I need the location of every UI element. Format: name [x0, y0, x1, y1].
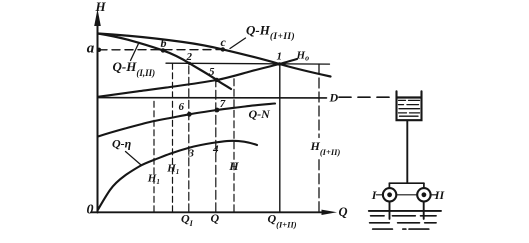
- svg-text:7: 7: [220, 98, 226, 110]
- curve Q-N: [98, 104, 275, 137]
- Q axis: [91, 210, 337, 215]
- svg-text:H1: H1: [166, 163, 179, 177]
- svg-text:QI: QI: [181, 212, 194, 229]
- point 2: [188, 62, 191, 65]
- suction pipe I: [389, 202, 391, 219]
- vertical line H1 first: [153, 99, 155, 212]
- point 1: [278, 62, 282, 66]
- svg-text:Q: Q: [339, 205, 348, 219]
- svg-text:3: 3: [188, 148, 195, 160]
- tank water hatching: [399, 100, 420, 116]
- vertical line QI: [188, 64, 190, 212]
- svg-text:Q(I+II): Q(I+II): [268, 212, 297, 230]
- point b: [161, 48, 165, 52]
- line through pump centers: [376, 194, 437, 196]
- suction pipe II: [423, 202, 425, 219]
- curve Q-eta: [98, 141, 258, 211]
- svg-text:Q-H(I,II): Q-H(I,II): [113, 59, 156, 78]
- svg-text:2: 2: [186, 51, 193, 63]
- svg-text:Ho: Ho: [296, 50, 310, 63]
- D line dashed to tank: [339, 96, 394, 98]
- svg-text:Q: Q: [211, 211, 220, 225]
- point 5: [215, 78, 219, 82]
- vertical line Q (through 5): [215, 80, 217, 212]
- svg-text:5: 5: [209, 66, 215, 78]
- point 7: [215, 108, 220, 113]
- lower water surface line: [369, 210, 441, 212]
- svg-text:II: II: [434, 188, 446, 202]
- svg-text:b: b: [161, 36, 167, 50]
- point 6: [187, 112, 192, 117]
- svg-text:D: D: [329, 91, 339, 105]
- label Q-H(I,II) with leader: [131, 43, 140, 61]
- curve Q-H(I,II) individual: [98, 34, 231, 90]
- vertical line Q(I+II) from point 1: [279, 64, 281, 212]
- D line solid: [98, 97, 327, 99]
- svg-text:1: 1: [277, 51, 283, 63]
- svg-text:H(I+II): H(I+II): [310, 139, 341, 157]
- manifold header: [389, 182, 424, 184]
- dashed line a-b-c: [99, 49, 222, 51]
- point c: [221, 47, 225, 51]
- svg-text:H: H: [95, 0, 107, 14]
- lower water hatching row 3: [370, 222, 437, 224]
- pipeline system curve: [98, 59, 297, 97]
- pump I circle: [383, 188, 396, 201]
- curve Q-H(I+II) combined: [98, 34, 331, 77]
- lower water hatching row 4: [373, 228, 429, 230]
- pump II circle: [417, 188, 430, 201]
- tank water surface: [397, 96, 421, 98]
- point a: [97, 48, 101, 52]
- H axis: [94, 9, 101, 213]
- label Q-H(I+II) with leader: [230, 38, 246, 49]
- svg-text:Q-H(I+II): Q-H(I+II): [246, 23, 295, 43]
- tank walls: [397, 91, 422, 120]
- svg-text:4: 4: [212, 144, 219, 156]
- svg-text:0: 0: [87, 203, 94, 218]
- vertical line H1 second: [172, 64, 174, 212]
- vertical line H: [233, 76, 235, 212]
- svg-text:Q-η: Q-η: [112, 137, 132, 151]
- svg-text:c: c: [221, 35, 227, 49]
- svg-text:6: 6: [179, 101, 185, 113]
- horizontal line H(I+II) level through 2 and 1: [166, 62, 330, 65]
- label Q-eta with leader: [126, 152, 141, 165]
- vertical line H(I+II): [318, 64, 320, 138]
- svg-text:a: a: [87, 41, 95, 57]
- svg-text:H: H: [228, 159, 239, 173]
- discharge pipe from tank: [406, 120, 408, 183]
- svg-text:Q-N: Q-N: [249, 107, 272, 121]
- lower water hatching row 2: [371, 215, 437, 217]
- svg-text:H1: H1: [147, 173, 160, 187]
